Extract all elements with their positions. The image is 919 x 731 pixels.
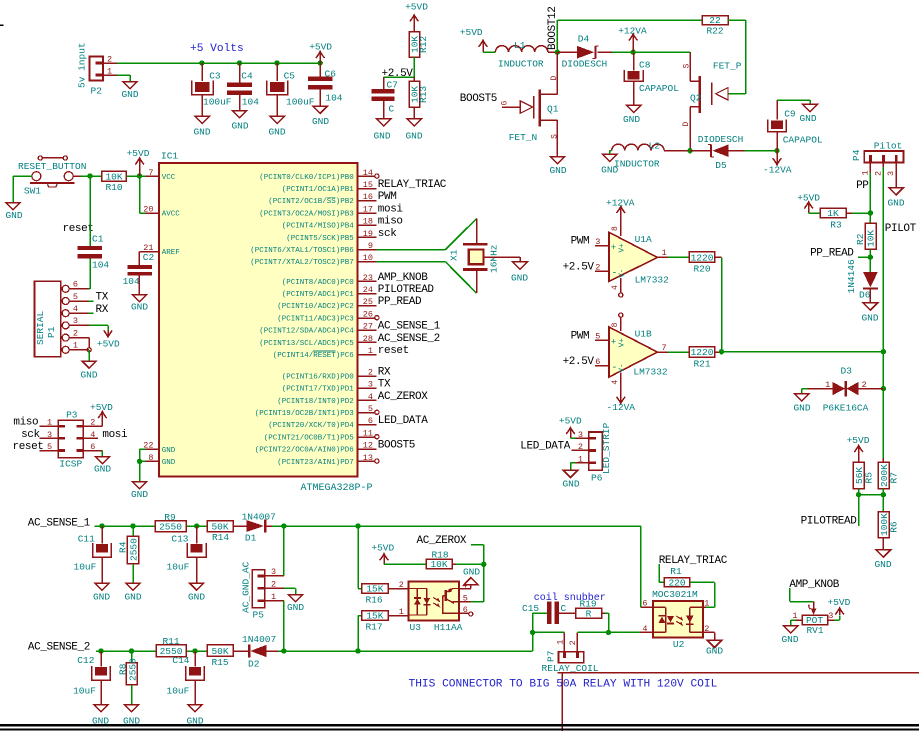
resistor R13 10K bbox=[409, 77, 429, 119]
svg-text:AREF: AREF bbox=[162, 249, 180, 257]
label RELAY_TRIAC at R1 bbox=[659, 555, 728, 567]
wire SW1 to reset junction bbox=[73, 175, 90, 177]
wire L1 to node bbox=[548, 51, 558, 53]
svg-text:ICSP: ICSP bbox=[59, 458, 82, 469]
svg-text:R5: R5 bbox=[863, 472, 874, 484]
junction reset node bbox=[87, 173, 92, 178]
svg-text:16: 16 bbox=[363, 192, 373, 202]
label BOOST12 bbox=[547, 7, 559, 50]
wire AC_SENSE_2 tap to R17 bbox=[358, 616, 362, 652]
IC1 left pin 7 VCC bbox=[148, 168, 175, 182]
capacitor C13 10uF bbox=[167, 526, 207, 583]
svg-text:reset: reset bbox=[378, 345, 409, 357]
svg-text:(PCINT21/OC0B/T1)PD5: (PCINT21/OC0B/T1)PD5 bbox=[264, 434, 355, 442]
wire PILOTREAD stub bbox=[858, 495, 860, 526]
junction C12 tap bbox=[98, 648, 103, 653]
junction C13 tap bbox=[194, 523, 199, 528]
svg-text:GND: GND bbox=[623, 114, 640, 125]
sheet frame bottom border lines bbox=[0, 725, 919, 729]
svg-text:C: C bbox=[389, 103, 395, 114]
ground GND at P4 bbox=[887, 188, 904, 209]
ground GND at IC1 bbox=[131, 482, 148, 501]
inductor L1 bbox=[495, 40, 547, 69]
svg-text:P7: P7 bbox=[546, 651, 557, 662]
junction +12VA node bbox=[631, 50, 636, 55]
potentiometer RV1 POT bbox=[792, 602, 833, 636]
U3 pin5 collector wire bbox=[459, 564, 484, 603]
svg-text:+5VD: +5VD bbox=[97, 339, 120, 350]
IC1 left pin 22 GND bbox=[143, 441, 176, 455]
U1A pin4 no-connect bbox=[611, 278, 623, 297]
wire P5 pin3 bbox=[265, 526, 284, 576]
capacitor C11 10uF bbox=[74, 526, 112, 583]
ground GND left of L2 bbox=[601, 154, 618, 175]
connector P4 Pilot bbox=[851, 140, 904, 176]
capacitor C12 10uF bbox=[73, 651, 110, 705]
wire +5VD to R3 bbox=[809, 212, 821, 214]
svg-text:P6KE16CA: P6KE16CA bbox=[823, 403, 869, 414]
junction IC1 ground bbox=[137, 459, 142, 464]
IC1 pin 1 net reset bbox=[273, 345, 409, 360]
svg-text:(PCINT14/RESET)PC6: (PCINT14/RESET)PC6 bbox=[273, 352, 355, 360]
svg-text:2: 2 bbox=[874, 171, 884, 176]
svg-text:1: 1 bbox=[861, 170, 871, 175]
svg-text:PILOTREAD: PILOTREAD bbox=[378, 284, 435, 296]
IC1 pin 4 net AC_ZEROX bbox=[277, 391, 428, 406]
svg-text:1: 1 bbox=[368, 346, 373, 356]
svg-text:GND: GND bbox=[781, 634, 798, 645]
wire U1A output pin1 bbox=[657, 248, 689, 258]
wire U1A pin3 PWM bbox=[571, 236, 609, 248]
svg-text:GND: GND bbox=[312, 116, 329, 127]
svg-text:V-: V- bbox=[619, 269, 627, 278]
label AMP_KNOB bbox=[789, 579, 839, 591]
svg-text:100uF: 100uF bbox=[203, 97, 232, 108]
svg-text:PILOT: PILOT bbox=[885, 223, 917, 235]
label BOOST5 net bbox=[460, 93, 497, 105]
ground GND at P3 bbox=[94, 457, 111, 475]
svg-text:6: 6 bbox=[595, 357, 600, 367]
junction R8 tap bbox=[129, 648, 134, 653]
wire D5 to -12VA node bbox=[729, 150, 777, 152]
IC1 left pin 20 AVCC bbox=[143, 204, 180, 218]
wire P6 pin2 bbox=[572, 449, 589, 451]
wire +2.5V to C7 bbox=[384, 76, 415, 78]
svg-text:GND: GND bbox=[131, 489, 148, 500]
svg-text:104: 104 bbox=[123, 276, 140, 287]
svg-text:1: 1 bbox=[47, 418, 52, 428]
resistor R4 2550 bbox=[118, 526, 140, 583]
svg-text:IC1: IC1 bbox=[161, 151, 178, 162]
capacitor C5 100uF bbox=[267, 63, 315, 116]
svg-text:GND: GND bbox=[193, 127, 210, 138]
svg-text:GND: GND bbox=[405, 130, 422, 141]
svg-text:PP: PP bbox=[856, 180, 869, 192]
IC1 pin 23 net AMP_KNOB bbox=[282, 272, 428, 287]
supply +5VD at P6 bbox=[559, 416, 582, 439]
IC1 pin 17 net mosi bbox=[259, 203, 403, 218]
wire L2 to node bbox=[664, 150, 690, 152]
label mosi at P3 bbox=[102, 429, 128, 441]
IC1 pin 5 no-connect bbox=[255, 404, 379, 418]
label TX bbox=[96, 292, 109, 304]
ground GND at C8 bbox=[623, 105, 641, 125]
IC U1 (IC1) ATMEGA328P-P body bbox=[159, 163, 358, 477]
capacitor C6 104 bbox=[308, 63, 343, 106]
svg-text:24: 24 bbox=[363, 285, 373, 295]
svg-text:(PCINT22/OC0A/AIN0)PD6: (PCINT22/OC0A/AIN0)PD6 bbox=[255, 447, 355, 455]
svg-text:GND: GND bbox=[268, 127, 285, 138]
svg-text:(PCINT1/OC1A)PB1: (PCINT1/OC1A)PB1 bbox=[282, 186, 355, 194]
svg-text:D: D bbox=[682, 122, 691, 127]
svg-text:10uF: 10uF bbox=[73, 686, 96, 697]
transistor Q2 FET_P bbox=[682, 52, 742, 151]
svg-text:R17: R17 bbox=[365, 622, 382, 633]
ground GND at C7 bbox=[373, 119, 390, 142]
ground GND at P6 bbox=[562, 470, 579, 489]
svg-text:(PCINT20/XCK/T0)PD4: (PCINT20/XCK/T0)PD4 bbox=[268, 422, 354, 430]
junction PILOT/D3 bbox=[881, 386, 886, 391]
wire P1 pin4 RX bbox=[69, 312, 93, 314]
wire PP_READ label bbox=[858, 256, 870, 258]
svg-text:R21: R21 bbox=[693, 358, 710, 369]
wire AC_SENSE_1 rail bbox=[95, 525, 641, 527]
supply +5VD at RV1 bbox=[828, 597, 851, 615]
svg-text:6: 6 bbox=[463, 605, 468, 615]
svg-text:4: 4 bbox=[90, 430, 95, 440]
IC1 pin 3 net TX bbox=[282, 379, 391, 394]
wire IC1 ground down bbox=[139, 461, 141, 481]
svg-text:26: 26 bbox=[363, 309, 373, 319]
ground GND at P1 bbox=[80, 361, 97, 381]
svg-text:R2: R2 bbox=[855, 233, 866, 245]
connector P5 AC_GND_AC bbox=[240, 561, 276, 620]
svg-text:(PCINT12/SDA/ADC4)PC4: (PCINT12/SDA/ADC4)PC4 bbox=[259, 328, 354, 336]
IC1 pin 16 net PWM bbox=[268, 191, 396, 206]
svg-text:+5VD: +5VD bbox=[90, 402, 113, 413]
svg-text:1: 1 bbox=[107, 66, 112, 76]
diode D4 DIODESCH bbox=[557, 33, 607, 69]
svg-text:RELAY_TRIAC: RELAY_TRIAC bbox=[659, 555, 728, 567]
svg-text:+12VA: +12VA bbox=[618, 26, 647, 37]
resistor R18 10K bbox=[426, 550, 452, 571]
svg-text:(PCINT17/TXD)PD1: (PCINT17/TXD)PD1 bbox=[282, 386, 355, 394]
label coil snubber bbox=[534, 592, 606, 604]
svg-text:+5 Volts: +5 Volts bbox=[190, 43, 244, 55]
ground GND at C9 bbox=[799, 104, 817, 124]
svg-text:10uF: 10uF bbox=[167, 686, 190, 697]
supply +5VD at R3 bbox=[797, 192, 820, 213]
wire R1 to U2 pin1 bbox=[690, 582, 715, 608]
wire U1B pin6 +2.5V bbox=[563, 356, 609, 368]
svg-text:11: 11 bbox=[363, 428, 373, 438]
svg-text:AC_SENSE_2: AC_SENSE_2 bbox=[378, 333, 440, 345]
ground GND at C14 bbox=[186, 705, 203, 727]
ground GND at C5 bbox=[268, 116, 285, 137]
svg-text:V+: V+ bbox=[619, 243, 627, 253]
svg-text:C11: C11 bbox=[78, 534, 95, 545]
junction on +5 rail at C3 bbox=[199, 60, 204, 65]
svg-text:GND: GND bbox=[124, 592, 141, 603]
IC1 pin 2 net RX bbox=[282, 366, 391, 381]
svg-text:2550: 2550 bbox=[128, 538, 139, 561]
label +2.5V node bbox=[382, 68, 414, 80]
wire SW1 left to GND bbox=[13, 176, 32, 202]
svg-text:PWM: PWM bbox=[571, 330, 590, 342]
junction R4 tap bbox=[130, 523, 135, 528]
wire P3 pin4 bbox=[83, 430, 98, 440]
junction D1 output bbox=[281, 523, 286, 528]
wire P6 pin3 bbox=[571, 437, 589, 439]
label H11AA bbox=[434, 622, 463, 633]
junction snubber right bbox=[606, 630, 611, 635]
wire P3 pin5 bbox=[39, 442, 58, 452]
svg-text:TX: TX bbox=[96, 292, 109, 304]
IC1 pin 18 net miso bbox=[282, 216, 403, 231]
svg-text:VCC: VCC bbox=[162, 174, 176, 182]
svg-text:CAPAPOL: CAPAPOL bbox=[639, 83, 679, 94]
wire IC1 pin8 GND bbox=[140, 460, 159, 462]
svg-text:V-: V- bbox=[619, 363, 627, 372]
svg-text:C5: C5 bbox=[284, 70, 296, 81]
wire P1 pin1 to GND bbox=[69, 350, 89, 361]
svg-text:mosi: mosi bbox=[378, 203, 404, 215]
U3 pin4 to GND above bbox=[459, 566, 480, 590]
ground GND at R4 bbox=[124, 583, 141, 603]
wire VCC node to AVCC pin bbox=[140, 176, 159, 213]
junction R5/R7 node bbox=[856, 492, 861, 497]
wire P5 pin2 to GND bbox=[265, 588, 296, 594]
svg-text:GND: GND bbox=[162, 459, 176, 467]
junction output rail bbox=[719, 349, 724, 354]
svg-text:3: 3 bbox=[595, 237, 600, 247]
supply -12VA at U1B pin4 bbox=[607, 373, 636, 413]
svg-text:AC_SENSE_1: AC_SENSE_1 bbox=[28, 517, 91, 529]
svg-text:6: 6 bbox=[642, 599, 647, 609]
capacitor C14 10uF bbox=[167, 651, 205, 705]
capacitor C2 104 bbox=[123, 252, 155, 295]
wire U1A pin2 +2.5V bbox=[563, 261, 609, 273]
wire AC_SENSE_1 rail to U2 pin6 bbox=[641, 526, 653, 609]
svg-text:(PCINT7/XTAL2/TOSC2)PB7: (PCINT7/XTAL2/TOSC2)PB7 bbox=[250, 259, 354, 267]
svg-text:5: 5 bbox=[463, 593, 468, 603]
svg-text:C3: C3 bbox=[209, 70, 221, 81]
wire P4 pin2 PILOT vertical bbox=[882, 163, 884, 459]
wire R20 to output rail bbox=[715, 257, 722, 351]
svg-text:10: 10 bbox=[363, 253, 373, 263]
svg-text:GND: GND bbox=[793, 403, 810, 414]
svg-text:2: 2 bbox=[578, 442, 583, 452]
ground GND at C4 bbox=[231, 111, 248, 132]
svg-text:P3: P3 bbox=[66, 409, 78, 420]
svg-text:GND: GND bbox=[121, 89, 138, 100]
resistor R1 220 bbox=[664, 566, 690, 588]
supply +5VD at P1 pin3 (arrow down) bbox=[97, 330, 120, 350]
resistor R7 200K bbox=[878, 462, 899, 494]
svg-text:AC_GND_AC: AC_GND_AC bbox=[240, 561, 251, 613]
svg-text:2: 2 bbox=[862, 380, 867, 390]
svg-text:+5VD: +5VD bbox=[559, 416, 582, 427]
svg-text:+5VD: +5VD bbox=[847, 435, 870, 446]
svg-text:D3: D3 bbox=[841, 365, 853, 376]
ground GND at P2 bbox=[121, 82, 138, 101]
svg-text:(PCINT9/ADC1)PC1: (PCINT9/ADC1)PC1 bbox=[282, 291, 355, 299]
label RESET_BUTTON bbox=[18, 161, 86, 172]
wire +5V rail bbox=[117, 62, 320, 64]
svg-text:1: 1 bbox=[704, 599, 709, 609]
label RX bbox=[96, 304, 109, 316]
svg-text:U3: U3 bbox=[410, 622, 422, 633]
svg-text:LED_STRIP: LED_STRIP bbox=[601, 422, 612, 474]
svg-text:GND: GND bbox=[463, 566, 480, 577]
svg-text:SW1: SW1 bbox=[24, 186, 41, 197]
ground GND at U2 bbox=[706, 640, 723, 656]
label U2 bbox=[673, 639, 685, 650]
svg-text:U1A: U1A bbox=[635, 234, 652, 245]
svg-text:R16: R16 bbox=[365, 595, 382, 606]
wire R22 to Q2 gate bbox=[728, 20, 746, 94]
wire AC_SENSE_2 to snubber bbox=[532, 632, 534, 651]
wire R17 to U3 pin1 bbox=[388, 607, 408, 617]
svg-text:AC_ZEROX: AC_ZEROX bbox=[378, 391, 428, 403]
svg-text:2: 2 bbox=[399, 580, 404, 590]
resistor R20 1220 bbox=[689, 252, 714, 275]
svg-text:C2: C2 bbox=[143, 252, 155, 263]
svg-text:R: R bbox=[586, 608, 592, 619]
svg-text:GND: GND bbox=[287, 602, 304, 613]
wire RV1 pin1 to GND bbox=[791, 620, 802, 626]
wire R3 to PP node bbox=[846, 212, 870, 214]
capacitor C8 CAPAPOL bbox=[624, 52, 679, 105]
svg-text:5: 5 bbox=[47, 442, 52, 452]
wire P5 pin1 bbox=[265, 601, 284, 651]
svg-text:P4: P4 bbox=[851, 149, 862, 161]
resistor R5 56K bbox=[853, 462, 874, 494]
svg-text:GND: GND bbox=[511, 272, 528, 283]
svg-text:R19: R19 bbox=[579, 599, 596, 610]
svg-text:5: 5 bbox=[595, 332, 600, 342]
svg-text:GND: GND bbox=[162, 447, 176, 455]
svg-text:R3: R3 bbox=[830, 220, 842, 231]
svg-text:1N4007: 1N4007 bbox=[242, 512, 276, 523]
svg-text:C9: C9 bbox=[784, 109, 796, 120]
svg-text:(PCINT3/OC2A/MOSI)PB3: (PCINT3/OC2A/MOSI)PB3 bbox=[259, 210, 354, 218]
label MOC3021M bbox=[652, 589, 698, 600]
svg-text:2: 2 bbox=[595, 262, 600, 272]
ground GND at R13 bbox=[405, 119, 422, 142]
svg-text:2: 2 bbox=[107, 54, 112, 64]
IC1 pin 13 no-connect bbox=[277, 453, 379, 467]
wire R7 top bbox=[882, 458, 884, 462]
svg-text:GND: GND bbox=[562, 479, 579, 490]
svg-text:GND: GND bbox=[5, 210, 22, 221]
svg-text:27: 27 bbox=[363, 322, 373, 332]
svg-text:R1: R1 bbox=[670, 566, 682, 577]
resistor R15 50K bbox=[207, 645, 233, 668]
ground GND at P5 bbox=[287, 595, 304, 613]
capacitor C15 C bbox=[522, 602, 567, 624]
svg-text:+5VD: +5VD bbox=[460, 27, 483, 38]
connector P6 LED_STRIP bbox=[578, 422, 612, 483]
svg-text:D4: D4 bbox=[578, 33, 590, 44]
svg-text:+5VD: +5VD bbox=[797, 192, 820, 203]
svg-text:19: 19 bbox=[363, 229, 373, 239]
junction PILOT/output bbox=[881, 349, 886, 354]
diode D6 1N4146 bbox=[846, 257, 878, 303]
wire R12 to +2.5V node bbox=[413, 57, 415, 77]
svg-text:R22: R22 bbox=[706, 25, 723, 36]
svg-text:(PCINT19/OC2B/INT1)PD3: (PCINT19/OC2B/INT1)PD3 bbox=[255, 410, 355, 418]
svg-text:GND: GND bbox=[93, 592, 110, 603]
svg-text:GND: GND bbox=[861, 313, 878, 324]
resistor R2 10K bbox=[855, 213, 876, 257]
wire AMP_KNOB to wiper bbox=[790, 588, 814, 601]
svg-text:8: 8 bbox=[611, 226, 620, 231]
wire P3 pin1 bbox=[39, 418, 58, 428]
svg-text:50K: 50K bbox=[211, 646, 228, 657]
svg-text:(PCINT18/INT0)PD2: (PCINT18/INT0)PD2 bbox=[277, 398, 354, 406]
label PILOT bbox=[885, 223, 917, 235]
svg-text:1: 1 bbox=[578, 454, 583, 464]
wire RELAY_TRIAC to R1 bbox=[659, 564, 664, 582]
wire P1 pin5 TX bbox=[69, 300, 93, 302]
svg-text:4: 4 bbox=[368, 392, 373, 402]
svg-text:reset: reset bbox=[63, 223, 94, 235]
diode D3 P6KE16CA bbox=[807, 365, 883, 413]
capacitor C4 104 bbox=[227, 63, 259, 111]
switch SW1 bbox=[24, 156, 75, 197]
optocoupler U3 H11AA body bbox=[409, 582, 459, 621]
svg-text:2550: 2550 bbox=[127, 658, 138, 681]
svg-text:1: 1 bbox=[399, 607, 404, 617]
svg-text:GND: GND bbox=[131, 301, 148, 312]
svg-text:sck: sck bbox=[378, 228, 397, 240]
svg-text:6: 6 bbox=[368, 416, 373, 426]
IC1 pin 25 net PP_READ bbox=[277, 296, 422, 311]
svg-text:R12: R12 bbox=[418, 36, 429, 53]
svg-text:7: 7 bbox=[662, 343, 667, 353]
wire U1B pin5 PWM bbox=[571, 330, 609, 342]
wire P3 pin6 to GND bbox=[83, 442, 102, 457]
label miso at P3 bbox=[13, 417, 38, 429]
svg-text:Q1: Q1 bbox=[547, 103, 559, 114]
svg-text:R13: R13 bbox=[418, 86, 429, 103]
svg-text:C13: C13 bbox=[171, 534, 188, 545]
wire P1 pin3 to +5VD bbox=[69, 325, 108, 332]
wire U2 pin2 to GND bbox=[703, 624, 715, 641]
inductor L2 bbox=[612, 141, 664, 170]
svg-text:D2: D2 bbox=[248, 658, 260, 669]
svg-text:FET_N: FET_N bbox=[509, 132, 538, 143]
svg-text:+2.5V: +2.5V bbox=[382, 68, 414, 80]
IC1 pin 9 crystal bbox=[250, 241, 376, 255]
resistor R8 2550 bbox=[118, 651, 139, 705]
svg-text:10K: 10K bbox=[105, 172, 122, 183]
svg-text:1K: 1K bbox=[827, 208, 839, 219]
svg-text:H11AA: H11AA bbox=[434, 622, 463, 633]
ground GND at C11 bbox=[93, 583, 110, 603]
wire AC_SENSE_2 rail bbox=[96, 650, 533, 652]
svg-text:PWM: PWM bbox=[571, 236, 590, 248]
connector P1 SERIAL bbox=[35, 280, 79, 357]
IC1 pin 14 no-connect bbox=[259, 168, 379, 182]
svg-text:17: 17 bbox=[363, 204, 373, 214]
ground GND at X1 bbox=[511, 262, 528, 283]
resistor R19 R bbox=[559, 599, 601, 620]
IC1 left pin 21 AREF bbox=[143, 243, 180, 257]
svg-text:R15: R15 bbox=[211, 657, 228, 668]
svg-text:R6: R6 bbox=[888, 521, 899, 533]
